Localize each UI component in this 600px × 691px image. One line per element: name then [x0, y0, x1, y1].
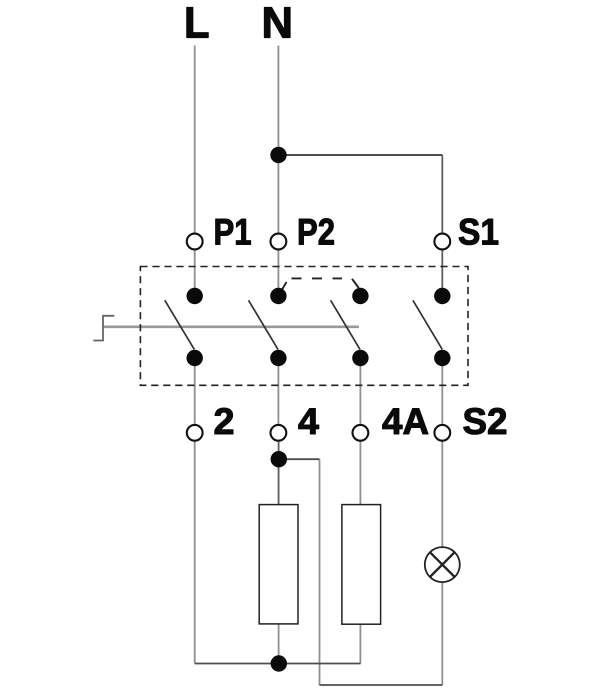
svg-text:P1: P1 [214, 211, 252, 252]
svg-text:4: 4 [298, 401, 319, 442]
svg-text:L: L [184, 0, 210, 47]
svg-text:2: 2 [214, 401, 235, 442]
svg-text:S2: S2 [463, 401, 508, 442]
svg-text:N: N [262, 0, 294, 47]
svg-text:4A: 4A [382, 401, 429, 442]
svg-text:S1: S1 [458, 211, 499, 252]
svg-text:P2: P2 [297, 211, 335, 252]
